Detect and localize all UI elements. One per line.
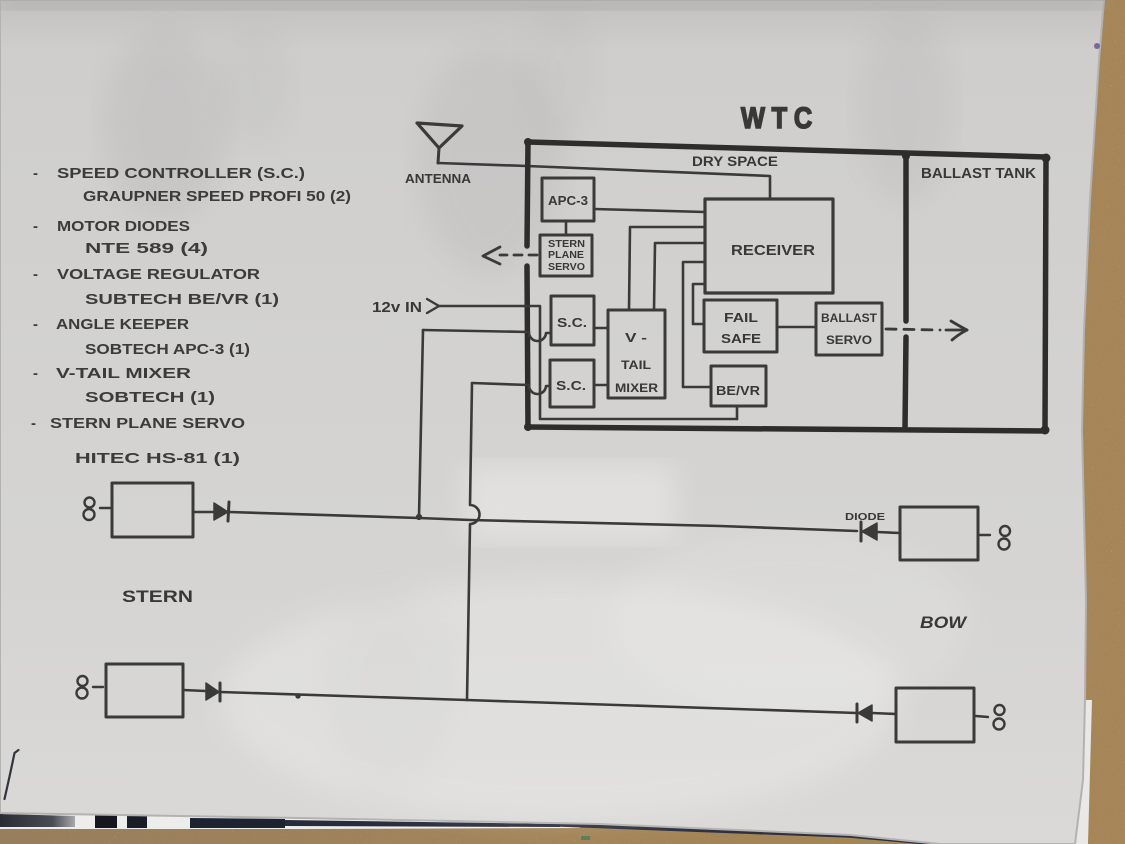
box S.C. 1: [551, 296, 594, 345]
svg-text:-: -: [31, 415, 36, 432]
svg-text:VOLTAGE REGULATOR: VOLTAGE REGULATOR: [57, 266, 260, 283]
svg-text:-: -: [33, 365, 38, 382]
svg-text:FAIL: FAIL: [724, 311, 758, 325]
stern bottom propeller: [77, 676, 88, 699]
stub motor to prop: [976, 716, 988, 717]
svg-text:APC-3: APC-3: [548, 194, 588, 208]
wire receiver to v-tail (ch2): [654, 243, 705, 310]
svg-text:SERVO: SERVO: [826, 335, 872, 347]
ink dot on bottom bus: [296, 694, 300, 698]
box V-tail mixer: [608, 310, 665, 398]
stern top propeller: [84, 498, 95, 521]
purple speck top right: [1094, 43, 1100, 49]
svg-text:SOBTECH APC-3 (1): SOBTECH APC-3 (1): [85, 341, 250, 358]
wire to S.C.2 with hop: [472, 383, 550, 394]
svg-text:MIXER: MIXER: [615, 383, 659, 395]
svg-text:SPEED CONTROLLER (S.C.): SPEED CONTROLLER (S.C.): [57, 165, 305, 182]
bow top propeller: [999, 526, 1011, 550]
svg-text:BALLAST: BALLAST: [821, 313, 877, 325]
ballast tank partition: [905, 153, 906, 429]
svg-text:ANGLE KEEPER: ANGLE KEEPER: [56, 316, 189, 333]
page beneath (white strip with photo fragments along bottom edge): [0, 700, 1092, 844]
svg-text:S.C.: S.C.: [557, 316, 587, 330]
wire APC-3 to receiver: [594, 209, 705, 212]
wire motor to diode: [193, 511, 214, 514]
12v input arrowhead: [427, 299, 439, 313]
svg-text:STERN PLANE SERVO: STERN PLANE SERVO: [50, 415, 245, 432]
dashed arrow out to stern planes: [483, 247, 537, 264]
svg-text:HITEC HS-81 (1): HITEC HS-81 (1): [75, 450, 240, 467]
dashed arrow ballast servo to ballast tank: [886, 321, 967, 340]
motor bow top: [900, 507, 978, 560]
box stern plane servo: [540, 235, 592, 276]
svg-text:BOW: BOW: [920, 614, 968, 632]
green speck bottom: [581, 836, 590, 840]
motor stern bottom: [106, 664, 183, 717]
top motor bus wire: [229, 512, 857, 531]
motor stern top: [112, 483, 193, 537]
wire diode to bow top motor: [877, 532, 900, 533]
wire vertical from S.C.1 feed down to stern bus: [419, 330, 423, 517]
svg-text:GRAUPNER SPEED PROFI 50 (2): GRAUPNER SPEED PROFI 50 (2): [83, 188, 351, 205]
wire APC-3 to stern plane servo: [565, 221, 568, 235]
wire receiver to BE/VR: [683, 262, 711, 387]
svg-text:-: -: [33, 266, 38, 283]
svg-text:V-TAIL MIXER: V-TAIL MIXER: [56, 365, 191, 382]
wire diode to bow bottom motor: [872, 713, 896, 714]
antenna: [417, 123, 462, 163]
svg-text:ANTENNA: ANTENNA: [405, 172, 471, 186]
svg-text:BE/VR: BE/VR: [716, 384, 760, 398]
svg-text:SUBTECH BE/VR (1): SUBTECH BE/VR (1): [85, 291, 279, 308]
ink blobs at WTC box corners: [524, 138, 1051, 435]
svg-text:DRY SPACE: DRY SPACE: [692, 154, 778, 169]
wire vertical from S.C.2 feed down crossing top bus (hop) to bottom bus: [467, 383, 480, 700]
stub prop to motor: [100, 507, 110, 509]
diode D1: [214, 502, 229, 521]
svg-text:MOTOR DIODES: MOTOR DIODES: [57, 218, 190, 235]
svg-text:SAFE: SAFE: [721, 332, 761, 346]
stub motor to prop: [980, 534, 990, 536]
svg-text:DIODE: DIODE: [845, 511, 885, 523]
bow bottom propeller: [994, 705, 1005, 730]
pen mark bottom left: [5, 750, 19, 799]
svg-text:RECEIVER: RECEIVER: [731, 242, 815, 259]
junction dot: [416, 514, 421, 519]
box ballast servo: [816, 303, 882, 355]
wire S.C.2 to v-tail mixer: [594, 384, 608, 387]
svg-text:SERVO: SERVO: [548, 262, 585, 273]
svg-text:SOBTECH (1): SOBTECH (1): [85, 389, 215, 406]
box APC-3: [542, 178, 594, 221]
svg-text:-: -: [33, 218, 38, 235]
wire fail safe to ballast servo: [777, 326, 816, 329]
svg-text:PLANE: PLANE: [548, 250, 584, 261]
svg-text:STERN: STERN: [548, 239, 585, 250]
wire 12v feed line: [438, 306, 737, 419]
photo fragments on page beneath: [0, 814, 938, 844]
svg-text:WTC: WTC: [741, 102, 819, 135]
bottom motor bus wire: [220, 692, 857, 713]
svg-text:V -: V -: [625, 330, 647, 345]
parts list text: [31, 165, 351, 467]
wire S.C.1 to v-tail mixer: [594, 327, 608, 330]
wire receiver to v-tail (ch1): [629, 227, 705, 310]
box fail safe: [704, 300, 777, 352]
box S.C. 2: [550, 360, 594, 407]
svg-text:TAIL: TAIL: [621, 360, 651, 372]
WTC enclosure box: [527, 142, 1046, 431]
box receiver: [705, 199, 833, 293]
stub prop to motor: [93, 686, 103, 688]
diode D4: [857, 704, 872, 722]
wire motor to diode: [183, 690, 206, 691]
box BE/VR: [711, 366, 766, 406]
wire BE/VR stub to 12v line: [736, 406, 739, 419]
svg-text:-: -: [33, 316, 38, 333]
diode D3: [861, 522, 877, 541]
svg-text:NTE 589 (4): NTE 589 (4): [85, 240, 208, 257]
svg-text:12v IN: 12v IN: [372, 300, 422, 316]
diode D2: [206, 683, 220, 701]
wire receiver to fail safe: [693, 284, 705, 324]
wire to S.C.1 with hop: [423, 330, 551, 341]
motor bow bottom: [896, 688, 974, 742]
wire: antenna to receiver: [438, 163, 770, 199]
svg-text:-: -: [33, 165, 38, 182]
svg-text:S.C.: S.C.: [556, 379, 586, 393]
svg-text:STERN: STERN: [122, 588, 193, 606]
svg-text:BALLAST TANK: BALLAST TANK: [921, 166, 1037, 182]
